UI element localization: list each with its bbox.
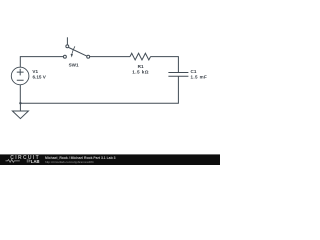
svg-text:1.5 kΩ: 1.5 kΩ [132, 70, 149, 75]
svg-text:SW1: SW1 [69, 63, 79, 68]
svg-text:C1: C1 [191, 69, 197, 74]
svg-text:6.15 V: 6.15 V [33, 75, 47, 80]
svg-text:http://circuitlab.com/c/qpbram: http://circuitlab.com/c/qpbramxw484 [45, 160, 94, 164]
svg-text:1.5 mF: 1.5 mF [191, 75, 208, 80]
svg-text:R1: R1 [138, 64, 144, 69]
svg-text:LAB: LAB [31, 159, 40, 164]
svg-text:V1: V1 [32, 69, 38, 74]
